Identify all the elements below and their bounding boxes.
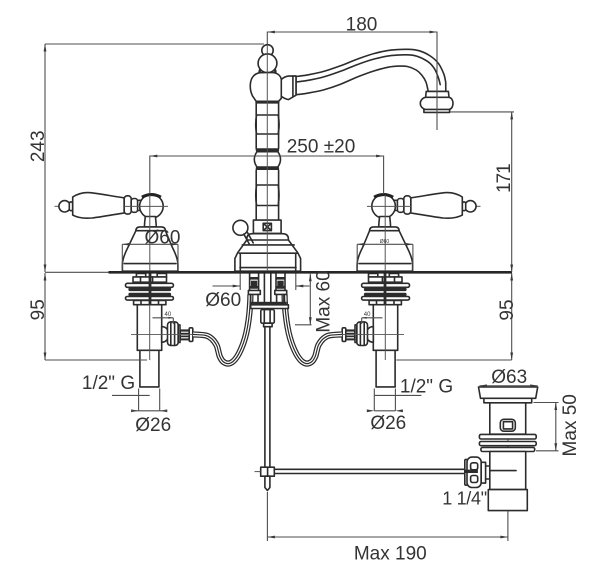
svg-text:1/2" G: 1/2" G [400,376,453,397]
svg-text:Ø26: Ø26 [370,413,406,434]
svg-text:180: 180 [346,15,378,36]
svg-text:95: 95 [497,299,518,320]
svg-text:Max 190: Max 190 [354,543,427,564]
svg-text:Ø60: Ø60 [145,228,181,249]
spout outlet rings [420,91,453,112]
svg-text:Max 50: Max 50 [560,394,581,456]
spout swan-neck tube [296,49,446,94]
svg-text:40: 40 [364,312,371,318]
pop-up rod guide tubes below deck [264,274,270,302]
dimension 250 +-20 (handles spacing) [150,137,384,194]
left supply hose [193,295,250,364]
dimension 171 (right vertical) [450,112,515,272]
pop-up pull knob and arm [233,220,253,244]
pop-up rod adapter [261,310,275,327]
pop-up vertical rod [265,327,270,468]
dimension Max 60 (deck thickness) [295,270,335,332]
svg-text:95: 95 [28,299,49,320]
dimension 1/2 G left [82,373,150,396]
dimension D26 left [131,389,171,436]
svg-text:Ø60: Ø60 [380,239,390,245]
centre bell base [235,234,301,272]
column shaft with rings [254,101,280,220]
svg-text:Ø63: Ø63 [491,367,527,388]
dimension Max 190 (rod reach) [267,492,508,564]
svg-text:Max 60: Max 60 [314,270,335,332]
left valve assembly below deck [126,273,197,387]
right handle assembly (mirrored) [357,193,480,272]
spout connector barrel [281,76,296,100]
clamp bar [250,302,287,305]
dimension Max 50 drain [534,394,582,456]
drain pop-up lever nut (ribbed) [465,457,490,487]
spout body (upper housing) [250,72,281,101]
svg-text:1 1/4": 1 1/4" [442,489,487,509]
dimension 40 left (tiny) [153,312,174,324]
svg-text:Ø60: Ø60 [205,290,241,311]
svg-text:1/2" G: 1/2" G [82,373,135,394]
centre mounting studs below deck [248,274,286,302]
dimension D60 centre base [205,274,309,311]
node centreline of faucet column [266,45,268,273]
horizontal lift rod to drain [274,469,466,473]
dimension D26 right [367,389,406,434]
right supply hose [285,295,342,364]
rod clevis block [255,467,275,490]
dimension D63 drain flange [479,367,537,388]
dimension 40 right (tiny) [362,312,383,324]
dimension D60 left handle base [122,228,180,271]
dimension 180 (top horizontal) [267,15,437,131]
svg-text:250 ±20: 250 ±20 [287,137,356,158]
svg-text:243: 243 [28,130,49,162]
svg-text:171: 171 [494,164,515,193]
dimension D60 right handle base [357,239,413,271]
svg-text:Ø26: Ø26 [135,415,171,436]
dimension 243 (left vertical) [28,44,264,272]
svg-text:40: 40 [165,312,172,318]
finial small ball on column top [262,45,273,56]
dimension 95 (left vertical) [28,272,147,360]
left handle assembly [55,193,178,272]
dimension 1/2 G right [375,376,454,397]
finial medium ball [258,54,277,73]
pop-up rod collar with cross detail [253,220,281,233]
dimension 95 (right vertical) [396,273,518,360]
drain body assembly [479,387,538,512]
right valve assembly below deck (mirrored) [339,273,410,387]
wire deck line [109,271,513,274]
